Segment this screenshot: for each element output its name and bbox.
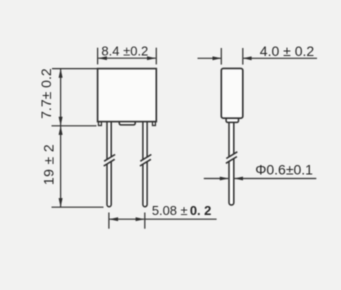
svg-text:7.7± 0.2: 7.7± 0.2 bbox=[38, 68, 54, 119]
svg-text:19 ± 2: 19 ± 2 bbox=[41, 144, 57, 185]
svg-text:5.08 ±0. 2: 5.08 ±0. 2 bbox=[152, 203, 211, 218]
svg-text:4.0 ± 0.2: 4.0 ± 0.2 bbox=[260, 43, 315, 59]
svg-text:Φ0.6±0.1: Φ0.6±0.1 bbox=[255, 162, 313, 178]
svg-text:8.4 ±0.2: 8.4 ±0.2 bbox=[101, 43, 148, 58]
